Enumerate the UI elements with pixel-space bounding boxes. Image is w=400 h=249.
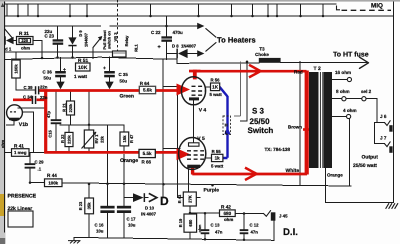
svg-text:1K: 1K: [212, 84, 219, 89]
svg-text:C15: C15: [48, 130, 53, 138]
svg-text:C 23: C 23: [45, 33, 55, 38]
svg-text:R 56: R 56: [211, 77, 221, 82]
svg-text:RV 1: RV 1: [94, 134, 99, 144]
svg-text:ohm: ohm: [224, 217, 233, 222]
svg-text:J 45: J 45: [279, 214, 288, 219]
svg-text:35k: 35k: [87, 202, 92, 210]
svg-text:D.I.: D.I.: [283, 227, 298, 238]
svg-text:680: 680: [188, 219, 193, 227]
svg-text:PRESENCE: PRESENCE: [8, 194, 37, 200]
svg-text:Brown: Brown: [288, 125, 302, 130]
svg-text:+: +: [158, 45, 161, 51]
svg-text:1 watt: 1 watt: [74, 74, 87, 79]
svg-text:IN 4007: IN 4007: [141, 212, 157, 217]
svg-text:1k: 1k: [215, 156, 221, 161]
svg-text:R 64: R 64: [140, 81, 150, 86]
svg-text:d 1: d 1: [5, 47, 12, 52]
svg-text:R 47: R 47: [129, 134, 134, 143]
svg-text:47n: 47n: [251, 230, 259, 235]
svg-text:1N4007: 1N4007: [181, 44, 197, 49]
svg-text:V 4: V 4: [199, 107, 207, 113]
svg-text:White: White: [286, 168, 300, 174]
svg-text:160k: 160k: [14, 64, 19, 74]
svg-text:Orange: Orange: [327, 172, 343, 177]
svg-text:L: L: [225, 130, 228, 135]
svg-text:8 ohm: 8 ohm: [336, 89, 350, 94]
svg-text:C 12: C 12: [250, 223, 260, 228]
svg-text:25/50: 25/50: [250, 117, 271, 126]
svg-text:+: +: [63, 67, 66, 73]
svg-text:R 51: R 51: [78, 58, 88, 64]
svg-text:R 55: R 55: [212, 149, 222, 154]
svg-text:5.5k: 5.5k: [143, 151, 152, 156]
svg-text:sel 2: sel 2: [361, 89, 372, 94]
svg-text:R 21: R 21: [62, 103, 67, 112]
svg-text:switch on: switch on: [107, 30, 112, 49]
svg-text:10K: 10K: [78, 65, 88, 71]
svg-text:R 23: R 23: [78, 201, 83, 210]
svg-text:27K: 27K: [187, 195, 192, 203]
svg-text:22k Linear: 22k Linear: [8, 206, 33, 212]
svg-text:470u: 470u: [173, 30, 184, 35]
svg-text:C 35: C 35: [119, 72, 129, 77]
svg-text:680: 680: [224, 211, 232, 216]
svg-text:D: D: [160, 194, 169, 208]
svg-text:Purple: Purple: [204, 188, 220, 194]
svg-text:100k: 100k: [48, 180, 58, 185]
svg-text:C 16: C 16: [95, 222, 105, 227]
svg-text:V 5: V 5: [197, 136, 205, 142]
svg-text:ohm: ohm: [21, 46, 30, 51]
svg-text:1N4007: 1N4007: [83, 32, 88, 47]
svg-text:ohm: ohm: [1, 139, 5, 148]
svg-text:R 43: R 43: [177, 194, 182, 203]
svg-text:Switch: Switch: [248, 126, 274, 135]
svg-text:Green: Green: [120, 93, 134, 99]
svg-text:Output: Output: [362, 155, 379, 161]
svg-text:22n: 22n: [40, 95, 48, 100]
svg-text:R 41: R 41: [14, 144, 24, 149]
svg-text:S 3: S 3: [252, 106, 265, 115]
svg-text:R 31: R 31: [19, 31, 29, 36]
svg-text:5 watt: 5 watt: [210, 92, 223, 97]
svg-text:+: +: [103, 66, 106, 72]
svg-text:C 36: C 36: [43, 70, 53, 75]
svg-text:22n: 22n: [40, 84, 48, 89]
svg-text:220k: 220k: [66, 134, 71, 143]
svg-text:MIQ: MIQ: [371, 2, 383, 9]
svg-text:TX: 784-138: TX: 784-138: [265, 147, 291, 152]
svg-text:C 34: C 34: [23, 95, 33, 100]
svg-text:R 42: R 42: [221, 204, 231, 209]
svg-text:VR 3: VR 3: [113, 32, 118, 42]
svg-text:22k: 22k: [99, 135, 104, 142]
svg-text:5.6k: 5.6k: [143, 88, 152, 93]
svg-text:C 22: C 22: [151, 30, 161, 35]
svg-text:To Heaters: To Heaters: [217, 36, 256, 45]
svg-text:C 29: C 29: [35, 160, 45, 165]
svg-text:C 13: C 13: [211, 223, 221, 228]
svg-text:V1b: V1b: [19, 122, 28, 128]
svg-text:RL1: RL1: [133, 43, 138, 51]
svg-text:ohm: ohm: [198, 224, 202, 233]
svg-text:16 ohm: 16 ohm: [335, 70, 351, 75]
svg-text:R 66: R 66: [142, 160, 152, 165]
svg-text:Choke: Choke: [255, 52, 269, 57]
svg-text:J 7: J 7: [380, 136, 387, 141]
svg-text:C 39: C 39: [24, 85, 34, 90]
svg-text:J 6: J 6: [380, 114, 387, 119]
svg-text:10u: 10u: [96, 228, 104, 233]
svg-text:D 8: D 8: [172, 44, 179, 49]
svg-text:Relay: Relay: [124, 35, 129, 46]
svg-text:To HT fuse: To HT fuse: [333, 51, 369, 59]
svg-text:Orange: Orange: [120, 158, 138, 164]
svg-text:4 ohm: 4 ohm: [343, 108, 357, 113]
svg-text:47p: 47p: [46, 111, 51, 118]
svg-text:10u: 10u: [128, 222, 136, 227]
svg-text:5 watt: 5 watt: [211, 163, 224, 168]
svg-text:220: 220: [21, 38, 28, 43]
svg-text:C 17: C 17: [127, 216, 137, 221]
svg-text:T 2: T 2: [314, 66, 321, 72]
svg-text:50u: 50u: [44, 76, 52, 81]
svg-text:T3: T3: [259, 47, 265, 52]
svg-text:1 meg: 1 meg: [14, 150, 27, 155]
svg-text:D 9: D 9: [78, 30, 83, 37]
svg-text:15k: 15k: [122, 135, 127, 143]
svg-text:220k: 220k: [68, 103, 73, 112]
svg-text:50u: 50u: [120, 79, 128, 84]
svg-text:25/50 watt: 25/50 watt: [353, 163, 377, 169]
svg-text:.1: .1: [38, 167, 42, 172]
svg-text:Red: Red: [294, 69, 303, 74]
svg-text:D 10: D 10: [145, 205, 155, 210]
svg-text:H: H: [225, 123, 228, 128]
svg-text:R 22: R 22: [60, 134, 65, 143]
svg-text:47n: 47n: [215, 230, 223, 235]
svg-text:R 19: R 19: [178, 218, 183, 227]
svg-text:R 44: R 44: [47, 173, 57, 178]
